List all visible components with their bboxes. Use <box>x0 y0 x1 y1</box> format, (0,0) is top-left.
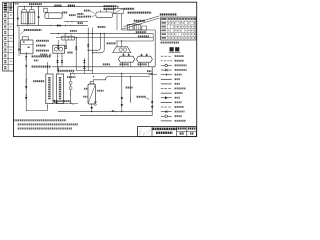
label cooling pump text <box>68 5 75 7</box>
upper bypass pipe <box>64 21 88 23</box>
buffer tank BT2 legs <box>139 62 141 66</box>
parameter table cell entries <box>168 22 169 24</box>
tank side labels <box>36 40 49 42</box>
junction dot 1 <box>26 59 27 60</box>
legend row 14 text <box>175 115 182 117</box>
tank HT2 top fittings <box>99 10 101 12</box>
legend row 3 symbol <box>161 64 172 66</box>
label mid-main text a <box>136 31 146 33</box>
buffer tank BT2 top fittings <box>141 53 143 56</box>
bottom U pipe <box>26 99 47 111</box>
table footnote text <box>161 42 179 44</box>
storage vessel V1 body <box>88 84 95 104</box>
label below chiller left <box>40 54 47 56</box>
title block outline <box>138 127 197 137</box>
riser to distributor R1 <box>46 62 48 74</box>
header box risers to main <box>64 34 66 37</box>
label chilled supply return text <box>58 70 75 72</box>
cooling tower CT1 fan deck <box>21 10 27 13</box>
notes line 2 <box>18 123 78 125</box>
legend row 2 symbol <box>161 60 163 62</box>
zone label text 2 <box>128 12 152 14</box>
legend row 15 text <box>175 120 186 122</box>
tower outlet header <box>21 23 35 25</box>
horizontal tank HT2 <box>96 12 113 18</box>
legend row 1 text <box>175 55 184 57</box>
legend row 9 symbol <box>161 92 172 94</box>
legend row 3 text <box>175 64 187 66</box>
zone boundary slanted line 2 <box>125 18 159 28</box>
tank top fitting marks <box>123 54 125 56</box>
riser with valves right of towers <box>38 7 40 26</box>
vessel bottom valve <box>91 104 93 107</box>
chilled water main 2 <box>56 37 153 39</box>
solid valve on return pipe <box>57 25 59 26</box>
label cooling tower text <box>54 5 61 7</box>
buffer tank BT1 top fittings <box>123 53 125 56</box>
label right of collector with leader <box>67 76 76 78</box>
tank labels below <box>120 63 129 65</box>
label feed water 2 <box>32 66 51 68</box>
legend row 14 symbol <box>161 115 172 117</box>
drawing frame border <box>14 2 197 136</box>
water tank supply label with leader <box>24 29 42 31</box>
main pipe y73.5 <box>71 73 153 75</box>
riser x152 lower <box>151 67 153 116</box>
solid triangle valve on left pipe <box>25 86 27 89</box>
air handling unit box 1 <box>128 24 133 30</box>
cooling tower CT2 body <box>29 12 35 24</box>
legend row 2 text <box>175 60 184 62</box>
collector column R2 <box>56 74 63 104</box>
valve on left riser <box>17 12 19 13</box>
legend row 8 symbol <box>161 88 163 90</box>
legend row 8 text <box>175 88 186 90</box>
right step risers <box>152 34 154 41</box>
pump P1 casing <box>44 8 47 12</box>
chilled water main 1 <box>50 33 153 35</box>
header box distributor top <box>62 36 75 40</box>
top supply pipe <box>18 6 112 8</box>
legend row 6 symbol <box>161 78 172 80</box>
legend row 7 symbol <box>161 83 172 85</box>
pump unit P2 box <box>114 8 124 13</box>
legend row 9 text <box>175 92 183 94</box>
air handling unit box 3 <box>142 26 147 30</box>
chiller unit box <box>53 45 65 53</box>
parameter table outline <box>161 17 196 40</box>
label text row mid <box>62 12 67 14</box>
parameter table first column texts <box>161 22 166 24</box>
title block stamp cell with halftone <box>139 128 152 136</box>
secondary pump cluster trapezoid <box>113 47 131 53</box>
secondary pump circles <box>119 48 122 51</box>
makeup water tank body <box>21 40 33 54</box>
legend row 15 symbol <box>161 120 172 122</box>
arrow marker 2 <box>25 65 27 67</box>
tank support line <box>52 66 155 68</box>
legend row 7 text <box>175 83 180 85</box>
legend row 12 text <box>175 106 184 108</box>
legend row 1 symbol <box>161 55 163 57</box>
vertical pipes center <box>87 28 89 71</box>
label mid-main text b <box>138 35 149 37</box>
left strip column divider <box>7 2 9 71</box>
left feed pipe <box>18 27 20 56</box>
parameter table header cell texts <box>161 18 166 20</box>
label near riser x140 with leader <box>137 96 146 98</box>
corner note text <box>15 3 19 5</box>
cold water pipe left with arrow <box>25 52 27 99</box>
cooling tower CT2 riser <box>31 7 33 10</box>
legend row 11 text <box>175 101 182 103</box>
label feed water small <box>34 60 39 62</box>
chiller risers <box>57 40 59 45</box>
label above header box <box>70 30 77 32</box>
buffer tank BT1 legs <box>121 62 123 66</box>
arrow marker 1 <box>25 56 27 58</box>
legend row 10 symbol <box>161 97 172 99</box>
solid diamond valves on center pipe <box>83 60 85 61</box>
legend row 5 symbol <box>161 74 172 76</box>
notes line 3 <box>18 128 73 130</box>
label below HT2 <box>98 26 106 28</box>
legend row 5 text <box>175 74 182 76</box>
vessel label right <box>97 90 103 92</box>
riser x122 lower <box>121 74 123 112</box>
zone label text 3 <box>134 20 145 22</box>
label two-line above HT2 <box>104 5 117 7</box>
riser right of chiller <box>75 38 77 71</box>
makeup water tank top box <box>22 37 28 40</box>
legend row 13 text <box>175 111 185 113</box>
title block drawing title text <box>152 128 177 131</box>
riser with gauges x70 <box>70 74 72 104</box>
distributor bottom valves <box>53 100 55 103</box>
paper background <box>0 0 200 142</box>
label above bottom main with leader <box>56 100 70 102</box>
left signature strip outline <box>3 2 14 71</box>
distributor column R1 <box>46 74 53 104</box>
label above top supply pipe <box>29 3 42 5</box>
cooling tower CT1 body <box>21 12 27 24</box>
pipe slash marks <box>25 79 27 81</box>
air handling unit box 2 <box>134 24 141 30</box>
pipe riser left end <box>17 7 19 27</box>
vessel V1 riser and stepped feed pipe <box>93 77 150 82</box>
diamond valve on center pipe upper <box>87 44 89 45</box>
label twin rows right of tank <box>77 13 83 15</box>
bottom main pipe 1 <box>58 111 152 113</box>
zone label text 1 <box>124 8 134 10</box>
risers near pump P2 <box>113 7 115 9</box>
zone boundary slanted line <box>124 16 159 27</box>
cross symbol <box>49 54 51 56</box>
legend row 6 text <box>175 78 180 80</box>
cooling water return pipe <box>17 25 88 27</box>
main pipe y70.5 segment <box>76 70 92 72</box>
bowtie valve near x58 <box>57 68 59 69</box>
title block figure-number cell texts <box>178 127 186 129</box>
riser x130 lower <box>129 77 131 104</box>
parameter table grid lines <box>166 17 168 40</box>
vessel bottom side circles <box>95 101 97 103</box>
chiller riser valves <box>57 46 59 47</box>
chiller label text <box>67 52 72 54</box>
distributor bottom pipe <box>53 103 78 105</box>
chilled water main 3 <box>118 40 153 42</box>
label near slash <box>33 80 44 82</box>
buffer tank BT2 <box>136 56 152 62</box>
valve marks on bottom main <box>112 110 114 112</box>
notes line 1 <box>14 119 66 121</box>
label left of HT2 <box>84 10 91 12</box>
legend row 10 text <box>175 97 180 99</box>
legend title <box>170 47 174 51</box>
short pipe at right edge <box>148 74 157 76</box>
season label mark <box>147 70 151 72</box>
left strip header text <box>4 3 7 12</box>
chiller bottom risers with diamond valves <box>57 53 59 67</box>
tank float marks <box>23 41 25 42</box>
left strip cell texts <box>4 14 6 17</box>
cooling tower CT2 fan deck <box>29 10 35 13</box>
label feed water 1 <box>32 55 51 57</box>
legend row 4 symbol <box>161 69 172 71</box>
horizontal tank HT1 <box>45 13 62 19</box>
parameter table title <box>160 13 177 15</box>
legend row 4 text <box>175 69 187 71</box>
label above pump cluster <box>107 42 116 44</box>
legend row 11 symbol <box>161 101 172 103</box>
cooling tower CT1 riser <box>23 7 25 10</box>
legend row 13 symbol <box>161 111 172 113</box>
pipe elbow loop 1 <box>88 34 100 51</box>
junction dots <box>58 33 59 34</box>
label near riser x130 <box>126 87 133 89</box>
vessel labels left <box>84 88 87 90</box>
left strip row lines <box>3 6 14 8</box>
vessel V1 internal diagonal <box>88 85 95 103</box>
bottom main pipe 2 <box>80 115 152 117</box>
header line under AHU <box>122 29 156 31</box>
buffer tank BT1 <box>118 56 134 62</box>
tick on U pipe riser <box>46 105 48 106</box>
pump cluster top pipes <box>116 41 118 47</box>
legend row 12 symbol <box>161 106 163 108</box>
left pipe bottom valve <box>25 97 27 100</box>
title block dividers <box>151 127 153 137</box>
pipe elbow loop 2 <box>93 34 105 53</box>
storage vessel V1 cap <box>90 81 93 84</box>
